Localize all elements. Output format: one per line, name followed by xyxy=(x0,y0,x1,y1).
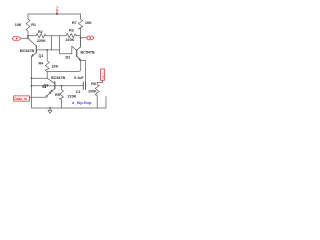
svg-text:R4: R4 xyxy=(39,62,45,66)
wire node Q to pad OUT xyxy=(81,37,87,39)
wire Q3 base line left xyxy=(32,85,55,87)
wire pad to node A xyxy=(21,37,28,39)
resistor R1 10K xyxy=(26,14,30,38)
wire VCC rail xyxy=(28,13,81,15)
wire H1 xyxy=(32,77,48,79)
transistor Q3 bar xyxy=(54,82,56,89)
svg-text:R5: R5 xyxy=(55,93,60,97)
wire branch down to Q2 base net xyxy=(59,36,61,54)
wire Q1 base xyxy=(36,49,59,51)
junction node Q xyxy=(80,37,82,39)
net label Clk (rotated red box) xyxy=(101,69,105,80)
svg-text:D2: D2 xyxy=(66,56,71,60)
svg-text:0.1uF: 0.1uF xyxy=(74,76,84,80)
junction H1/data xyxy=(31,77,33,79)
power symbol VCC xyxy=(56,11,58,14)
wire Q2 base net xyxy=(60,46,77,54)
transistor Q2 bar xyxy=(76,50,78,57)
junction node A lower xyxy=(27,37,29,39)
resistor R2 220K xyxy=(36,34,46,38)
svg-text:S1: S1 xyxy=(42,85,47,89)
svg-text:BC547B: BC547B xyxy=(81,50,95,54)
svg-text:10K: 10K xyxy=(15,23,22,27)
switch S1 contacts xyxy=(30,96,46,98)
Q3 emitter arrow to switch xyxy=(51,89,55,93)
Q2 collector xyxy=(77,38,81,51)
wire node A to Q1 collector xyxy=(28,38,36,46)
svg-text:R7: R7 xyxy=(72,21,77,25)
resistor R3 220K xyxy=(66,33,77,37)
labels xyxy=(14,21,97,105)
wire label to R6 xyxy=(97,80,102,82)
svg-text:10K: 10K xyxy=(52,64,59,68)
wire R3 to node Q xyxy=(77,35,81,37)
wire R2 to R3 xyxy=(46,35,66,37)
Data_in label box xyxy=(14,96,30,101)
wire H3 base line right xyxy=(55,85,84,87)
pad OUT xyxy=(87,36,94,40)
capacitor C1 right plate xyxy=(85,82,87,90)
transistor Q1 bar xyxy=(35,46,37,53)
resistor R5 220K xyxy=(60,86,64,108)
wire node A to R2 xyxy=(28,35,36,37)
Q1 emitter arrow xyxy=(32,53,37,57)
wire data line vertical xyxy=(31,57,33,108)
resistor R6 100K xyxy=(95,83,99,109)
svg-text:Clk_in: Clk_in xyxy=(101,71,105,79)
bottom rail xyxy=(32,107,107,109)
svg-text:100K: 100K xyxy=(88,90,97,94)
resistor R7 10K xyxy=(79,14,83,47)
capacitor C1 left plate xyxy=(82,82,84,90)
junction node A upper xyxy=(27,35,29,37)
junction base/R4 xyxy=(46,49,48,51)
junction H3/R5 xyxy=(61,85,63,87)
wire R4 bottom to H1 xyxy=(46,71,48,78)
resistor R4 10K xyxy=(45,50,49,72)
svg-text:220K: 220K xyxy=(37,39,46,43)
svg-text:Q1: Q1 xyxy=(39,54,44,58)
svg-text:10K: 10K xyxy=(85,21,92,25)
svg-text:R3: R3 xyxy=(69,29,74,33)
svg-text:R2: R2 xyxy=(38,30,43,34)
svg-text:d_flip-flop: d_flip-flop xyxy=(72,100,92,105)
svg-text:220K: 220K xyxy=(66,38,75,42)
wire branch down to Q1 base net xyxy=(51,36,53,50)
svg-text:BC547B: BC547B xyxy=(51,76,65,80)
pad IN xyxy=(12,37,21,40)
ground symbol xyxy=(48,108,52,113)
svg-text:BC547B: BC547B xyxy=(20,49,34,53)
stub right xyxy=(105,97,107,109)
junction rail/gnd xyxy=(49,107,51,109)
svg-text:R6: R6 xyxy=(91,82,96,86)
wire Q2 emitter loop to R4 bottom xyxy=(47,60,80,71)
junction base/data xyxy=(31,85,33,87)
svg-text:220K: 220K xyxy=(68,95,77,99)
svg-text:R1: R1 xyxy=(31,23,36,27)
Q2 emitter arrow xyxy=(77,56,81,60)
svg-text:Data_in: Data_in xyxy=(14,97,27,101)
svg-text:+9V: +9V xyxy=(55,6,60,14)
wire Q3 collector diag from H1 xyxy=(47,78,54,83)
svg-text:C1: C1 xyxy=(76,90,81,94)
junction power/rail xyxy=(56,13,58,15)
wire branch emitter to C1 right plate xyxy=(81,61,86,83)
